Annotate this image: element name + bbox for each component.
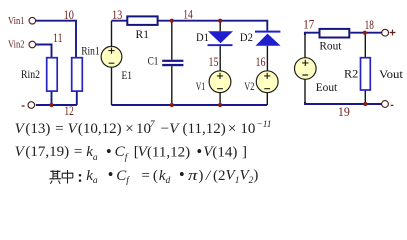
svg-text:14: 14 <box>183 8 193 22</box>
svg-text:Eout: Eout <box>316 80 338 94</box>
svg-text:D1: D1 <box>196 30 209 44</box>
svg-text:V1: V1 <box>196 79 206 93</box>
svg-text:Rin1: Rin1 <box>81 44 100 58</box>
svg-text:11: 11 <box>53 31 63 45</box>
svg-text:19: 19 <box>338 105 350 119</box>
svg-text:D2: D2 <box>240 30 253 44</box>
svg-text:17: 17 <box>303 18 314 32</box>
svg-text:Rin2: Rin2 <box>21 67 40 81</box>
svg-text:E1: E1 <box>122 68 133 82</box>
svg-text:C1: C1 <box>148 53 159 67</box>
svg-text:18: 18 <box>365 18 374 32</box>
svg-text:15: 15 <box>209 55 219 69</box>
svg-text:10: 10 <box>64 8 74 22</box>
svg-text:16: 16 <box>256 55 266 69</box>
svg-text:Vin2: Vin2 <box>8 39 25 50</box>
svg-text:Vin1: Vin1 <box>8 16 25 27</box>
svg-text:R1: R1 <box>136 27 150 41</box>
svg-text:13: 13 <box>112 8 122 22</box>
svg-text:Rout: Rout <box>319 39 342 53</box>
svg-text:V2: V2 <box>244 79 254 93</box>
svg-text:Vout: Vout <box>379 67 404 81</box>
svg-text:R2: R2 <box>344 67 358 81</box>
svg-text:12: 12 <box>64 104 74 118</box>
